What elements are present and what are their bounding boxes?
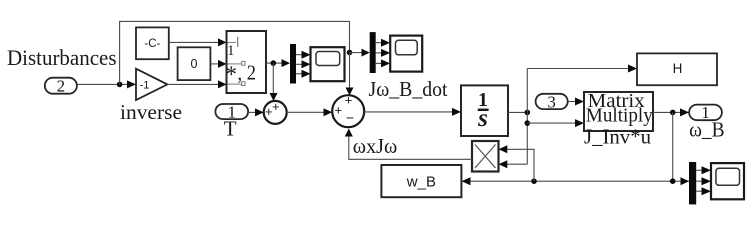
wire bottom bus omega: [462, 180, 690, 182]
wire disturbance branch up and across top: [120, 21, 350, 84]
node junction MM out: [670, 110, 676, 116]
node junction to MM input2: [525, 120, 531, 126]
wire Jω vertical trunk: [526, 69, 528, 165]
wire down to big sum top input: [346, 53, 354, 96]
wire branch down to small sum: [270, 63, 278, 101]
wire -C- to product input 1: [169, 38, 227, 46]
svg-text:−: −: [346, 109, 354, 125]
inport T: [215, 102, 248, 121]
scope S3: [711, 163, 744, 199]
svg-text:1: 1: [227, 43, 235, 59]
svg-text:H: H: [673, 61, 683, 76]
sum big (++-): [332, 92, 364, 127]
wire small sum to big sum: [287, 108, 333, 116]
svg-text:ωxJω: ωxJω: [353, 134, 398, 158]
svg-text:inverse: inverse: [120, 100, 182, 124]
svg-text:Jω_B_dot: Jω_B_dot: [369, 77, 448, 101]
multiport switch block (1 *,2): [226, 31, 267, 93]
demux3 output arrows: [696, 166, 711, 195]
svg-text:-1: -1: [140, 79, 150, 91]
svg-text:3: 3: [547, 92, 556, 111]
svg-text:T: T: [224, 117, 237, 141]
svg-text:-C-: -C-: [144, 38, 160, 50]
svg-text:, 2: , 2: [238, 61, 257, 85]
gain inverse (-1): [136, 69, 167, 100]
svg-text:s: s: [477, 105, 488, 132]
node junction on disturbance wire: [117, 82, 123, 88]
demux D2: [370, 32, 376, 73]
wire from inport 2 to gain: [77, 80, 136, 88]
node junction product output: [271, 60, 277, 66]
wire to matrix multiply input 2: [527, 119, 584, 127]
svg-text:+: +: [272, 99, 280, 114]
svg-text:Multiply: Multiply: [586, 104, 653, 126]
wire branch to demux2: [350, 49, 370, 57]
w_B block: [381, 165, 461, 197]
wire big sum to integrator: [364, 108, 461, 116]
demux1 output arrows: [296, 51, 311, 78]
svg-text:w_B: w_B: [406, 173, 436, 190]
svg-text:ω_B: ω_B: [689, 117, 725, 141]
wire T to small sum: [248, 108, 264, 116]
svg-text:J_Inv*u: J_Inv*u: [584, 125, 651, 149]
constant 0: [178, 47, 211, 80]
wire omega down to bottom bus: [672, 112, 674, 181]
svg-text:Disturbances: Disturbances: [7, 45, 117, 70]
wire 0 to product input 2: [210, 60, 226, 68]
svg-text:*: *: [226, 62, 238, 87]
cross product block: [472, 141, 499, 172]
wire product output to demux1: [266, 59, 290, 67]
arrow into demux3: [681, 177, 690, 185]
node junction integrator out: [525, 110, 531, 116]
wire matrix multiply output to outport: [653, 108, 689, 116]
wire to H block: [527, 65, 637, 73]
scope S2: [390, 36, 422, 72]
arrow into w_B: [462, 177, 471, 185]
svg-text:+: +: [265, 104, 273, 119]
wire cross product output to big sum minus: [345, 129, 472, 160]
matrix multiply block: [584, 90, 653, 131]
wire branch up to cross product input 1: [499, 145, 535, 181]
inport 3: [536, 92, 568, 111]
wire gain to product input 3: [167, 80, 226, 88]
sum small (++): [264, 99, 287, 124]
H block: [637, 53, 717, 85]
svg-text:2: 2: [57, 77, 66, 96]
node junction top vertical: [347, 50, 353, 56]
wire to cross product input 2: [499, 160, 528, 168]
demux D1: [290, 44, 296, 84]
node junction bottom bus left: [531, 178, 537, 184]
svg-text:0: 0: [191, 57, 198, 71]
svg-text:+: +: [345, 92, 353, 107]
wire inport 3 to matrix multiply: [568, 98, 584, 106]
scope S1: [311, 47, 345, 81]
outport omega_B: [689, 103, 722, 122]
constant -C-: [136, 27, 169, 59]
demux2 output arrows: [376, 39, 391, 68]
inport 2 (Disturbances): [45, 77, 77, 96]
demux D3: [689, 162, 696, 204]
svg-text:+: +: [335, 103, 343, 118]
integrator 1/s: [461, 85, 508, 136]
node junction bottom bus right: [670, 178, 676, 184]
wire integrator output: [508, 111, 527, 113]
